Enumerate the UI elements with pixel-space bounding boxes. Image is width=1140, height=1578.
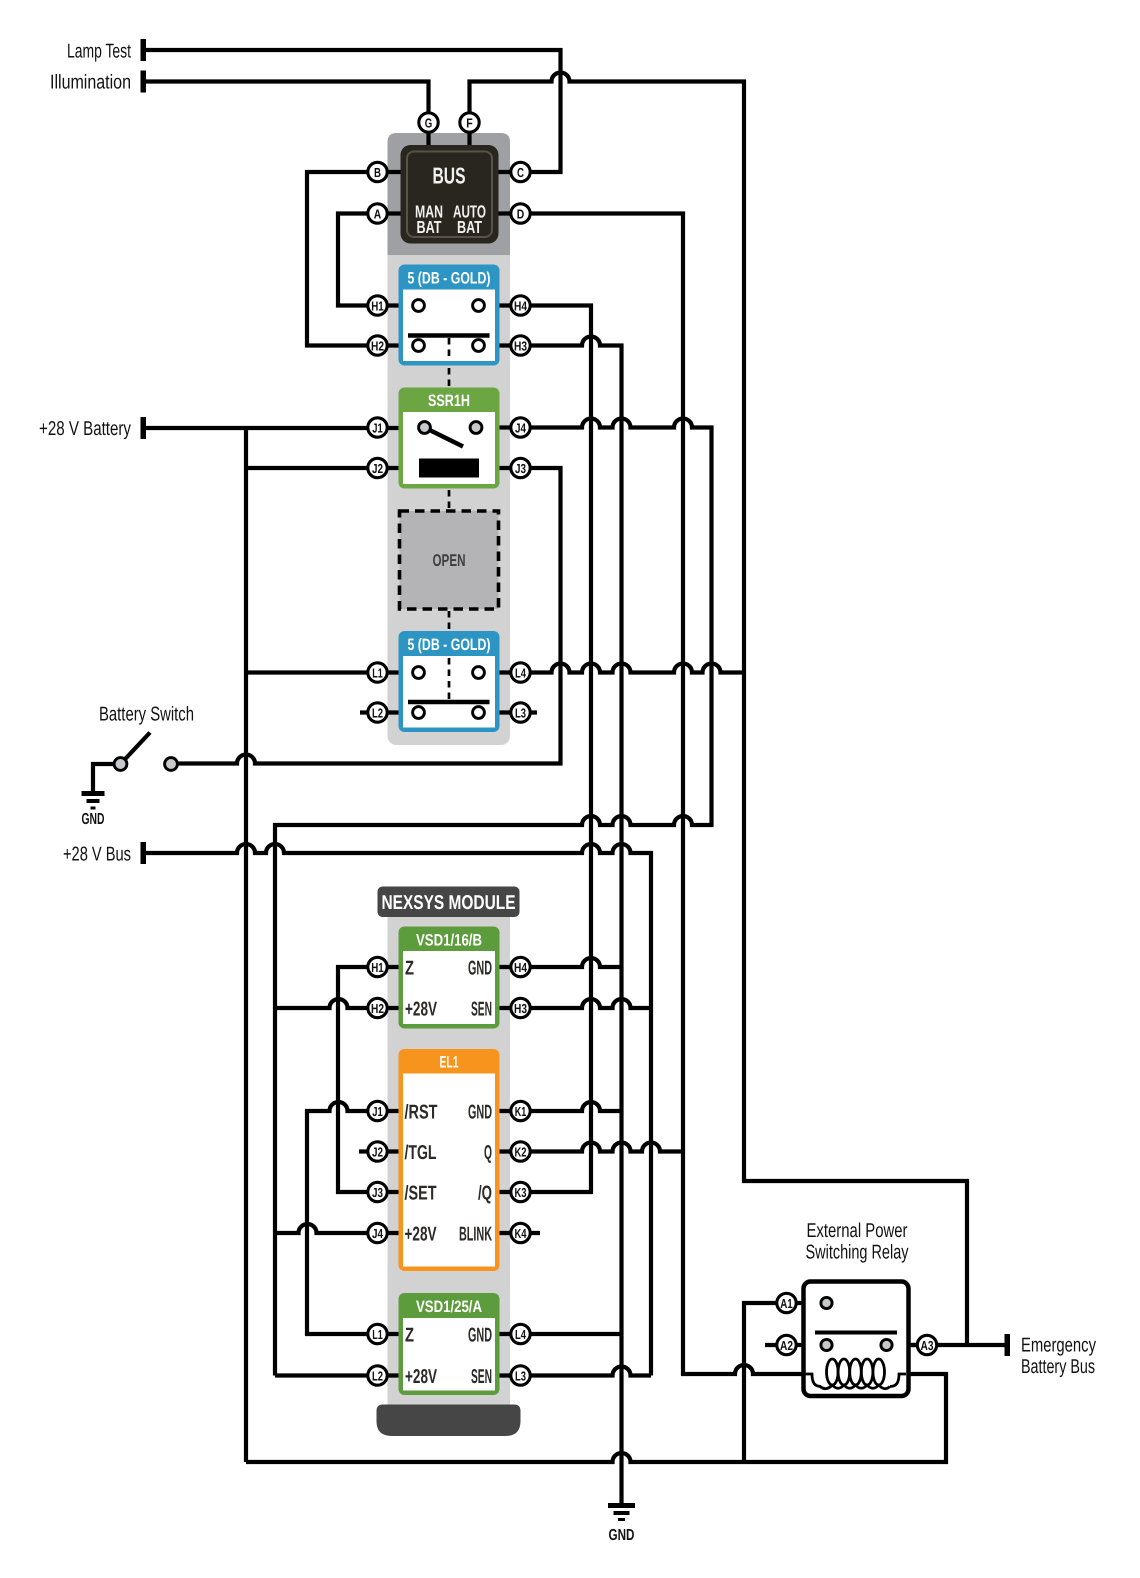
node C	[511, 162, 530, 181]
svg-text:Battery Bus: Battery Bus	[1021, 1356, 1095, 1378]
svg-text:H4: H4	[514, 298, 528, 313]
svg-text:H4: H4	[514, 960, 528, 975]
wire: +28V branch to VSD1/25/A L2 pin	[275, 1373, 403, 1377]
svg-text:L1: L1	[372, 1327, 383, 1342]
wire: bottom rail from battery trunk to relay coil	[246, 1374, 946, 1462]
svg-text:GND: GND	[468, 958, 492, 980]
wire: +28 V Battery trunk down left side	[244, 428, 248, 1462]
pin H3 relay K1	[511, 336, 530, 355]
wire: relay K1 H4 contact right, trunk down to EL1 K3	[479, 306, 592, 1193]
svg-text:+28V: +28V	[405, 1366, 437, 1388]
pin H3 VSD1/16/B	[511, 998, 530, 1017]
external relay contact posts A1,A2,A3	[821, 1297, 832, 1308]
svg-text:Emergency: Emergency	[1021, 1335, 1096, 1357]
svg-text:H1: H1	[371, 298, 384, 313]
svg-text:Lamp Test: Lamp Test	[67, 41, 131, 63]
pin J1 SSR1H	[368, 418, 387, 437]
relay K1 contact posts	[413, 300, 425, 312]
wire: relay K1 H2 pin stub to contact	[378, 343, 419, 347]
wire: relay A1 to bottom rail	[744, 1303, 827, 1462]
svg-text:Battery Switch: Battery Switch	[99, 704, 194, 726]
relay K2 contact posts	[413, 667, 425, 679]
VSD1/25/A module body	[399, 1293, 500, 1395]
svg-text:L4: L4	[515, 1327, 527, 1342]
svg-text:Q: Q	[484, 1142, 492, 1164]
wire: relay K2 L2 open stub	[360, 710, 419, 714]
EL1 module body	[399, 1049, 500, 1271]
svg-text:SEN: SEN	[471, 1366, 492, 1388]
SSR1H current-sense element (black rectangle)	[419, 459, 479, 478]
ground symbol (battery switch)	[82, 794, 105, 809]
wire: VSD1/25/A L3 (SEN) to bus trunk	[497, 1367, 651, 1376]
pin K3 EL1	[511, 1182, 530, 1201]
svg-text:L3: L3	[515, 1368, 526, 1383]
svg-text:B: B	[374, 165, 381, 180]
pin J4 EL1	[368, 1223, 387, 1242]
wire: relay K2 L4 right to F trunk	[479, 664, 745, 673]
svg-text:5 (DB - GOLD): 5 (DB - GOLD)	[408, 636, 491, 654]
pin L4 relay K2	[511, 663, 530, 682]
svg-text:BLINK: BLINK	[459, 1224, 492, 1246]
wire: relay K1 H1 pin stub to contact	[378, 303, 419, 307]
OPEN spare slot (dashed box)	[400, 511, 499, 609]
svg-text:H1: H1	[371, 960, 384, 975]
svg-text:L2: L2	[372, 1368, 383, 1383]
relay K1 body 5 (DB - GOLD)	[399, 265, 500, 366]
External Power Switching Relay body	[804, 1282, 909, 1397]
wire: EL1 J2 open stub	[359, 1149, 402, 1153]
pin H4 VSD1/16/B	[511, 957, 530, 976]
upper module slab (light gray background behind BUS/relays/OPEN stack)	[388, 133, 511, 745]
svg-text:Illumination: Illumination	[50, 72, 131, 94]
node B	[368, 162, 387, 181]
svg-text:Z: Z	[405, 958, 414, 980]
terminal bar: Lamp Test	[141, 39, 147, 61]
svg-text:K2: K2	[515, 1144, 527, 1159]
terminal bar: Emergency Battery Bus	[1005, 1334, 1011, 1356]
pin J2 EL1	[368, 1142, 387, 1161]
svg-text:+28V: +28V	[405, 1224, 437, 1246]
svg-text:VSD1/16/B: VSD1/16/B	[416, 932, 482, 950]
VSD1/16/B module body	[399, 927, 500, 1029]
svg-text:H2: H2	[371, 1001, 384, 1016]
pin H1 VSD1/16/B	[368, 957, 387, 976]
SSR1H switch blade	[425, 428, 464, 447]
svg-text:+28V: +28V	[405, 999, 437, 1021]
svg-text:+28 V Bus: +28 V Bus	[63, 844, 131, 866]
svg-text:J1: J1	[372, 1104, 383, 1119]
wire: +28 V Battery feed to SSR1H J1	[144, 426, 425, 430]
svg-text:C: C	[517, 165, 524, 180]
svg-text:A3: A3	[921, 1338, 934, 1353]
svg-text:GND: GND	[609, 1527, 635, 1544]
node A	[368, 204, 387, 223]
wire: BUS pin A to relay H1	[338, 214, 401, 306]
external relay coil	[805, 1359, 906, 1389]
wire: relay A2-A3 contact to A3 pin	[887, 1343, 941, 1347]
wire: SSR1H J4 right, down, jog left at y=825, down to NEXSYS +28V pins	[275, 419, 712, 1376]
svg-text:H2: H2	[371, 338, 384, 353]
node F	[460, 113, 479, 132]
NEXSYS module footer block	[377, 1405, 521, 1437]
svg-text:J1: J1	[372, 420, 383, 435]
NEXSYS MODULE title label	[378, 887, 520, 918]
wire: +28V branch to EL1 J4 pin	[275, 1224, 402, 1233]
svg-text:L3: L3	[515, 705, 526, 720]
svg-text:L4: L4	[515, 665, 527, 680]
pin L2 relay K2	[368, 703, 387, 722]
terminal bar: +28 V Bus	[141, 842, 147, 864]
battery switch contacts	[114, 758, 127, 771]
svg-text:NEXSYS MODULE: NEXSYS MODULE	[382, 892, 516, 914]
pin A2 ext relay	[777, 1335, 796, 1354]
svg-text:D: D	[517, 206, 525, 221]
wire: +28V branch to VSD1/16/B H2 pin	[275, 999, 403, 1008]
relay K2 contact bar	[408, 700, 490, 705]
wire: battery switch pole to ground	[93, 764, 121, 792]
relay K1 contact bar	[408, 333, 490, 338]
wire: BUS pin D trunk down to EL1 K2 and relay coil	[499, 214, 810, 1375]
pin H2 VSD1/16/B	[368, 998, 387, 1017]
wire: SSR1H J3 right, down to Battery Switch	[171, 468, 561, 764]
wire: BUS pin F up and right, F trunk down to A3 of external relay	[470, 73, 968, 1346]
svg-text:/SET: /SET	[405, 1183, 437, 1205]
wire: EL1 K2 (Q) to D trunk	[495, 1143, 683, 1152]
wire: Illumination to BUS pin G	[144, 82, 429, 146]
wire: relay K2 L3 open stub	[479, 710, 538, 714]
svg-text:J2: J2	[372, 1144, 383, 1159]
BUS annunciator legend text	[415, 163, 486, 238]
wire: EL1 J1 to VSD1/25/A L1	[307, 1102, 403, 1334]
svg-text:BAT: BAT	[417, 217, 442, 237]
pin H1 relay K1	[368, 296, 387, 315]
svg-text:Z: Z	[405, 1325, 414, 1347]
pin L1 relay K2	[368, 663, 387, 682]
pin K2 EL1	[511, 1142, 530, 1161]
pin J2 SSR1H	[368, 458, 387, 477]
pin H4 relay K1	[511, 296, 530, 315]
svg-text:5 (DB - GOLD): 5 (DB - GOLD)	[408, 270, 491, 288]
svg-text:F: F	[466, 115, 473, 130]
pin K4 EL1	[511, 1223, 530, 1242]
wire: +28 V Bus to NEXSYS SEN trunk	[144, 844, 652, 1376]
svg-text:/Q: /Q	[478, 1183, 492, 1205]
wire: Lamp Test to BUS pin C (down right side x=560.5)	[144, 50, 561, 172]
svg-text:H3: H3	[514, 338, 527, 353]
pin J3 SSR1H	[511, 458, 530, 477]
svg-text:/TGL: /TGL	[405, 1142, 437, 1164]
svg-text:L1: L1	[372, 665, 383, 680]
wire: BUS pin B to relay H2	[307, 172, 401, 346]
svg-text:G: G	[425, 115, 433, 130]
svg-text:GND: GND	[468, 1102, 492, 1124]
pin J3 EL1	[368, 1182, 387, 1201]
svg-text:J2: J2	[372, 461, 383, 476]
pin H2 relay K1	[368, 336, 387, 355]
wire: relay K1 H3 contact right, GND trunk down to bottom ground	[479, 337, 622, 1506]
svg-text:A1: A1	[780, 1296, 793, 1311]
SSR1H body	[399, 388, 500, 489]
svg-text:A2: A2	[780, 1338, 793, 1353]
svg-text:K4: K4	[515, 1226, 528, 1241]
SSR1H switch contacts	[419, 422, 431, 434]
BUS annunciator lamp (dark rounded box)	[401, 145, 499, 244]
pin L1 VSD1/25/A	[368, 1324, 387, 1343]
pin L3 VSD1/25/A	[511, 1366, 530, 1385]
pin L3 relay K2	[511, 703, 530, 722]
svg-text:J3: J3	[515, 461, 526, 476]
svg-text:/RST: /RST	[405, 1102, 438, 1124]
svg-text:EL1: EL1	[440, 1054, 459, 1072]
svg-text:GND: GND	[82, 811, 105, 828]
wire: EL1 K4 open stub	[495, 1231, 540, 1235]
external relay contact bar	[815, 1331, 897, 1335]
wire: relay A2 stub	[765, 1343, 827, 1347]
svg-text:J4: J4	[372, 1226, 384, 1241]
wire: NEXSYS H3 (SEN) to bus trunk	[495, 999, 651, 1008]
terminal bar: Illumination	[141, 71, 147, 93]
BUS annunciator dark-gray housing slab	[388, 133, 511, 255]
wire: VSD1/25/A L4 (GND) to ground trunk	[497, 1332, 622, 1336]
pin L2 VSD1/25/A	[368, 1366, 387, 1385]
pin J4 SSR1H	[511, 418, 530, 437]
relay K2 body 5 (DB - GOLD)	[399, 631, 500, 732]
svg-text:+28 V Battery: +28 V Battery	[39, 418, 131, 440]
svg-text:GND: GND	[468, 1325, 492, 1347]
svg-text:K1: K1	[515, 1104, 527, 1119]
node D	[511, 204, 530, 223]
svg-text:L2: L2	[372, 705, 383, 720]
pin A3 ext relay	[917, 1335, 936, 1354]
svg-text:BAT: BAT	[457, 217, 482, 237]
pin L4 VSD1/25/A	[511, 1324, 530, 1343]
terminal bar: +28 V Battery	[141, 417, 147, 439]
svg-text:J3: J3	[372, 1185, 383, 1200]
pin J1 EL1	[368, 1101, 387, 1120]
pin K1 EL1	[511, 1101, 530, 1120]
node G	[419, 113, 438, 132]
svg-text:H3: H3	[514, 1001, 527, 1016]
wire: NEXSYS H1 to EL1 J3	[338, 967, 403, 1192]
svg-text:OPEN: OPEN	[433, 551, 466, 570]
svg-text:A: A	[374, 206, 382, 221]
wire: SSR1H J2 row through current sense element	[246, 466, 521, 470]
svg-text:BUS: BUS	[433, 163, 466, 189]
NEXSYS module slab (light gray background)	[388, 917, 511, 1405]
svg-text:J4: J4	[515, 420, 527, 435]
svg-text:Switching Relay: Switching Relay	[806, 1242, 909, 1264]
wire: EL1 K1 (GND) to ground trunk	[495, 1102, 622, 1111]
pin A1 ext relay	[777, 1293, 796, 1312]
wire: relay K2 L1 feed from battery trunk	[246, 670, 419, 674]
wire: A3 to Emergency Battery Bus terminal	[887, 1343, 1008, 1347]
svg-text:External Power: External Power	[807, 1220, 908, 1242]
wire: NEXSYS H4 (GND) to ground trunk	[495, 958, 622, 967]
svg-text:SEN: SEN	[471, 999, 492, 1021]
mechanical link dashed lines (relay K1 / SSR1H / OPEN / relay K2)	[448, 338, 451, 700]
ground symbol (bottom GND)	[608, 1506, 635, 1520]
svg-text:K3: K3	[515, 1185, 527, 1200]
wire: battery switch blade	[121, 733, 151, 765]
svg-text:VSD1/25/A: VSD1/25/A	[416, 1298, 482, 1316]
svg-text:SSR1H: SSR1H	[428, 392, 470, 410]
